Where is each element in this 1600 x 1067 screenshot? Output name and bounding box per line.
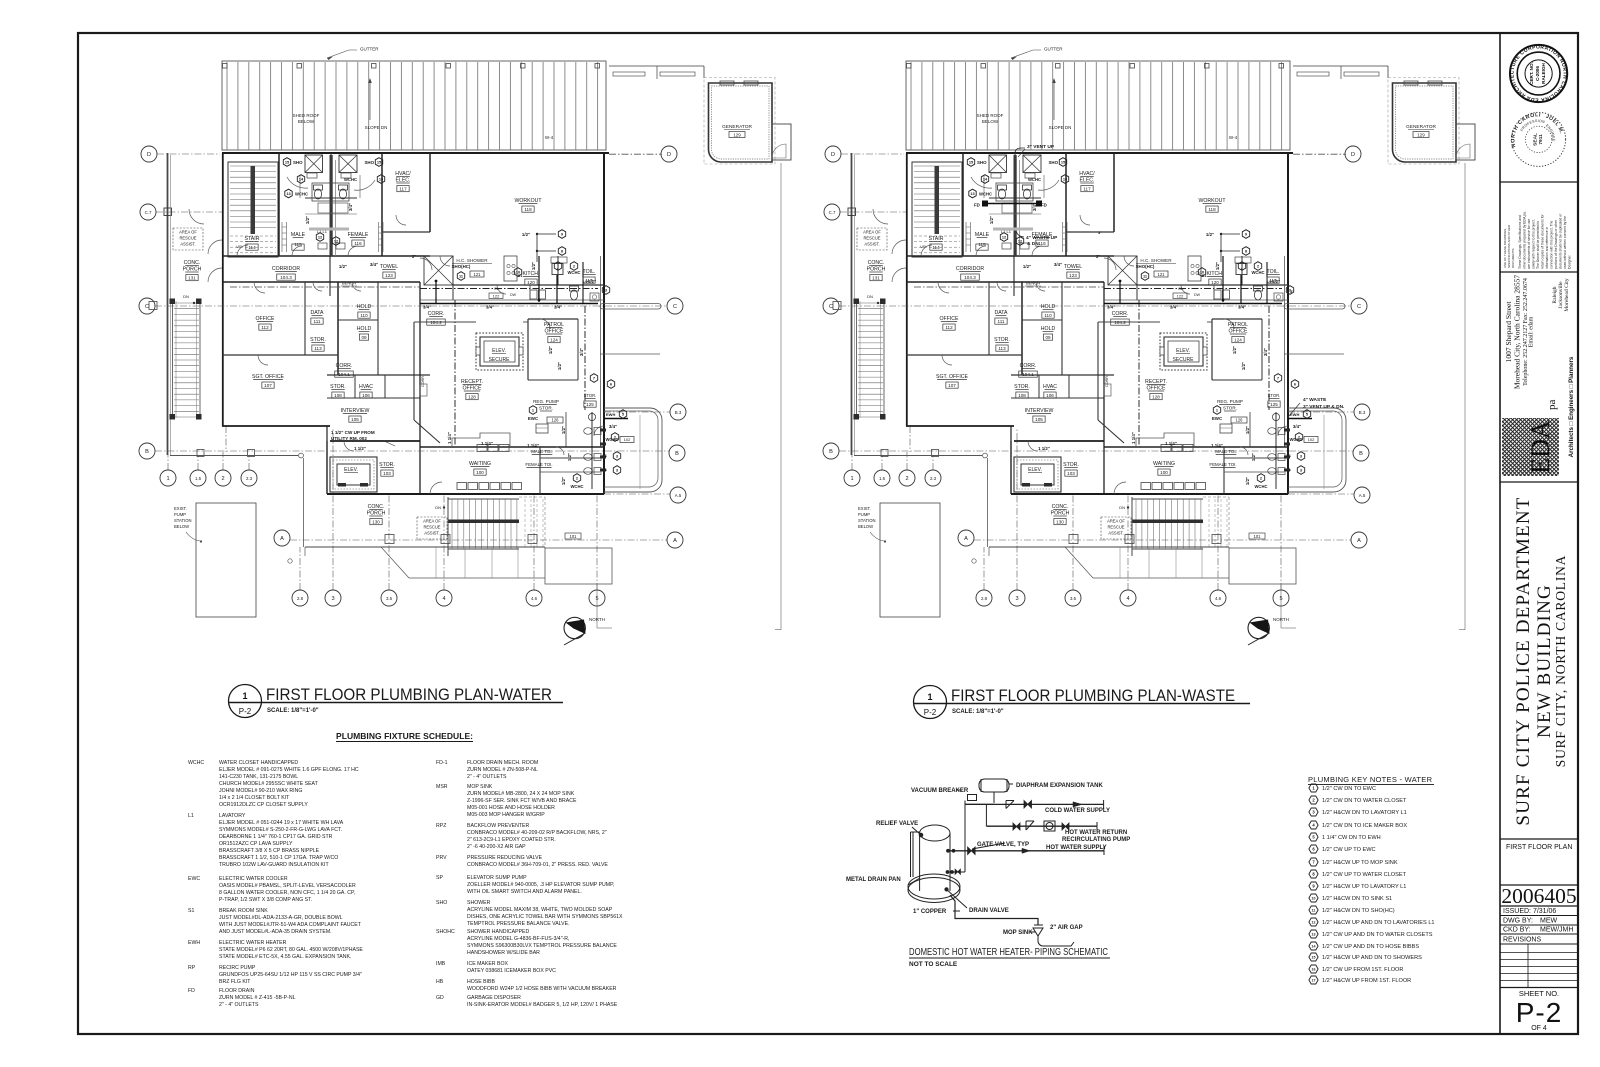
svg-text:C-2086: C-2086 — [1535, 66, 1540, 82]
svg-text:JUST MODEL#DL-ADA-2133-A-GR, D: JUST MODEL#DL-ADA-2133-A-GR, DOUBLE BOWL — [219, 915, 343, 921]
small valves below tank right — [950, 871, 965, 873]
svg-text:ACRYLINE MODEL MAXIM 38, WHITE: ACRYLINE MODEL MAXIM 38, WHITE, TWO MOLD… — [467, 907, 613, 913]
svg-text:DISHES, ONE ACRYLIC TOWEL BAR: DISHES, ONE ACRYLIC TOWEL BAR WITH SYMMO… — [467, 914, 623, 920]
svg-text:BRASSCRAFT 1 1/2, 510-1 CP 17G: BRASSCRAFT 1 1/2, 510-1 CP 17GA. TRAP W/… — [219, 855, 338, 861]
svg-text:solely with respect to this pr: solely with respect to this project. — [1532, 219, 1536, 269]
svg-text:17: 17 — [1312, 979, 1316, 983]
svg-text:1/2" H&CW UP FROM 1ST. FLOOR: 1/2" H&CW UP FROM 1ST. FLOOR — [1322, 978, 1411, 984]
svg-text:information and reference in: information and reference in — [1545, 227, 1549, 269]
svg-text:DRAIN VALVE: DRAIN VALVE — [969, 908, 1009, 914]
svg-text:FIRST FLOOR PLUMBING PLAN-WATE: FIRST FLOOR PLUMBING PLAN-WATER — [266, 686, 552, 704]
vacuum breaker + vertical pipe — [968, 795, 977, 801]
svg-text:MEW/JMH: MEW/JMH — [1540, 927, 1573, 934]
svg-text:retain copies of these documen: retain copies of these documents for — [1541, 213, 1545, 269]
labels — [846, 783, 1130, 936]
svg-text:FLOOR DRAIN MECH. ROOM: FLOOR DRAIN MECH. ROOM — [467, 760, 538, 766]
svg-text:ISSUED: 7/31/06: ISSUED: 7/31/06 — [1503, 908, 1556, 915]
svg-text:ACRYLINE MODEL G-4836-BF-FUS-3: ACRYLINE MODEL G-4836-BF-FUS-3/4"-R, — [467, 936, 569, 942]
svg-text:SCALE: 1/8"=1'-0": SCALE: 1/8"=1'-0" — [952, 709, 1004, 715]
svg-text:1/2" CW UP TO EWC: 1/2" CW UP TO EWC — [1322, 847, 1376, 853]
left title: water plan — [229, 685, 262, 718]
water heater tank — [920, 825, 950, 841]
svg-text:Email: edam: Email: edam — [1529, 316, 1535, 347]
svg-text:These Drawings, Specifications: These Drawings, Specifications and — [1518, 215, 1522, 269]
svg-text:16: 16 — [1312, 968, 1316, 972]
svg-text:other documents prepared by ED: other documents prepared by EDA,pa. — [1523, 211, 1527, 269]
svg-text:NORTH CAROLINA: NORTH CAROLINA — [0, 0, 1541, 148]
svg-text:13: 13 — [1312, 933, 1316, 937]
svg-text:1: 1 — [927, 692, 932, 702]
svg-text:& DN.: & DN. — [1027, 241, 1040, 247]
svg-text:PLUMBING FIXTURE SCHEDULE:: PLUMBING FIXTURE SCHEDULE: — [336, 731, 473, 741]
svg-text:EWC: EWC — [188, 876, 200, 882]
svg-text:NOT TO SCALE: NOT TO SCALE — [909, 961, 958, 968]
svg-text:ELEVATOR SUMP PUMP: ELEVATOR SUMP PUMP — [467, 875, 527, 881]
svg-text:MOP SINK: MOP SINK — [1003, 930, 1033, 936]
svg-text:4" WASTE UP: 4" WASTE UP — [1026, 235, 1058, 241]
svg-text:WOODFORD W24P 1/2 HOSE BIBB WI: WOODFORD W24P 1/2 HOSE BIBB WITH VACUUM … — [467, 986, 617, 992]
svg-text:GD: GD — [436, 995, 444, 1001]
left column labels — [188, 760, 204, 994]
svg-text:CERT. NO.: CERT. NO. — [1529, 62, 1534, 85]
svg-text:P-2: P-2 — [924, 708, 937, 717]
svg-text:STATE MODEL# P6 62 20RT, 80 GA: STATE MODEL# P6 62 20RT, 80 GAL. 4500 W/… — [219, 947, 363, 953]
svg-text:DOCUMENTS:: DOCUMENTS: — [1511, 248, 1515, 268]
svg-text:ELECTRIC WATER COOLER: ELECTRIC WATER COOLER — [219, 876, 288, 882]
svg-text:OR1512AZC CP LAVA SUPPLY: OR1512AZC CP LAVA SUPPLY — [219, 841, 293, 847]
right title: waste plan — [914, 686, 947, 719]
svg-text:3": 3" — [1290, 289, 1294, 294]
svg-text:3" VENT UP: 3" VENT UP — [1027, 144, 1055, 150]
svg-text:1: 1 — [1312, 786, 1315, 791]
drain pipe to mop sink — [950, 895, 1038, 925]
schematic title — [909, 946, 1110, 968]
svg-text:L1: L1 — [188, 813, 194, 819]
svg-text:1/2" H&CW UP AND DN TO LAVATOR: 1/2" H&CW UP AND DN TO LAVATORIES L1 — [1322, 920, 1435, 926]
svg-text:UTILITY RM. 002: UTILITY RM. 002 — [331, 436, 367, 441]
svg-text:1/2" CW DN TO WATER CLOSET: 1/2" CW DN TO WATER CLOSET — [1322, 798, 1407, 804]
svg-text:MOP SINK: MOP SINK — [467, 784, 493, 790]
svg-text:REVISIONS: REVISIONS — [1503, 937, 1541, 944]
svg-text:MEW: MEW — [1540, 918, 1558, 925]
svg-text:2" 613-2C9-L1 EPOXY COATED STR: 2" 613-2C9-L1 EPOXY COATED STR. — [467, 837, 556, 843]
svg-text:SP: SP — [436, 875, 443, 881]
svg-text:RP: RP — [188, 965, 196, 971]
svg-text:1: 1 — [242, 691, 247, 701]
relief valve mark — [919, 833, 923, 837]
svg-text:M05-001 HOSE AND HOSE HOLDER: M05-001 HOSE AND HOSE HOLDER — [467, 805, 555, 811]
expansion tank — [979, 779, 1009, 792]
svg-text:Morehead City: Morehead City — [1564, 278, 1570, 311]
seal 1: dark double circle — [1510, 44, 1568, 102]
svg-text:Z-1996-SF SER. SINK FCT W/VB A: Z-1996-SF SER. SINK FCT W/VB AND BRACE — [467, 798, 577, 804]
svg-text:DEARBORNE 1 1/4" 760-1 CP17 GA: DEARBORNE 1 1/4" 760-1 CP17 GA. GRID STR — [219, 834, 333, 840]
svg-text:CHURCH MODEL# 295SSC WHITE SEA: CHURCH MODEL# 295SSC WHITE SEAT — [219, 781, 319, 787]
svg-text:HOT WATER RETURN: HOT WATER RETURN — [1065, 830, 1127, 836]
svg-text:JOHNI MODEL# 90-210 WAX RING: JOHNI MODEL# 90-210 WAX RING — [219, 788, 302, 794]
lower blocks — [1501, 844, 1576, 1032]
svg-text:ZOELLER MODEL# 940-0005, .3 HP: ZOELLER MODEL# 940-0005, .3 HP ELEVATOR … — [467, 882, 614, 888]
svg-text:1/2" H&CW DN TO SINK S1: 1/2" H&CW DN TO SINK S1 — [1322, 896, 1392, 902]
svg-text:P-2: P-2 — [239, 707, 252, 716]
svg-text:3" VENT UP & DN.: 3" VENT UP & DN. — [1303, 404, 1344, 410]
svg-text:15: 15 — [1312, 956, 1316, 960]
left plan specific annotations — [331, 430, 395, 446]
svg-text:PRESSURE REDUCING VALVE: PRESSURE REDUCING VALVE — [467, 855, 543, 861]
svg-text:OF 4: OF 4 — [1531, 1025, 1547, 1032]
svg-text:SURF CITY POLICE DEPARTMENT: SURF CITY POLICE DEPARTMENT — [1513, 496, 1534, 825]
svg-text:STATE MODEL# ETC-5X, 4.55 GAL.: STATE MODEL# ETC-5X, 4.55 GAL. EXPANSION… — [219, 954, 351, 960]
svg-text:TRUBRO 102W LAV-GUARD INSULATI: TRUBRO 102W LAV-GUARD INSULATION KIT — [219, 862, 329, 868]
svg-text:3": 3" — [1098, 230, 1102, 235]
svg-text:RECIRCULATING PUMP: RECIRCULATING PUMP — [1062, 837, 1130, 843]
svg-text:WCHC: WCHC — [188, 760, 204, 766]
check valve on cold line — [1006, 801, 1014, 809]
svg-text:IN-SINK-ERATOR MODEL# BADGER 5: IN-SINK-ERATOR MODEL# BADGER 5, 1/2 HP, … — [467, 1002, 618, 1008]
svg-text:7911: 7911 — [1538, 134, 1544, 145]
svg-text:portions of the Drawings or ot: portions of the Drawings or other — [1554, 219, 1558, 269]
svg-text:1/4 x 2 1/4 CLOSET BOLT KIT: 1/4 x 2 1/4 CLOSET BOLT KIT — [219, 795, 290, 801]
right floor plan — [823, 47, 1475, 646]
svg-text:Morehead City, North Carolina: Morehead City, North Carolina 28557 — [1513, 275, 1522, 390]
svg-text:SHO: SHO — [436, 900, 447, 906]
svg-text:11: 11 — [1312, 909, 1316, 913]
left column descriptions — [219, 760, 363, 1008]
svg-text:BRASSCRAFT 3/8 X 5 CP BRASS NI: BRASSCRAFT 3/8 X 5 CP BRASS NIPPLE — [219, 848, 320, 854]
svg-text:1/2" CW DN TO EWC: 1/2" CW DN TO EWC — [1322, 786, 1376, 792]
section dividers — [1500, 181, 1578, 183]
svg-text:FD-1: FD-1 — [436, 760, 448, 766]
svg-text:IMB: IMB — [436, 961, 446, 967]
svg-text:BREAK ROOM SINK: BREAK ROOM SINK — [219, 908, 268, 914]
svg-text:CONBRACO MODEL# 40-209-02 R/P: CONBRACO MODEL# 40-209-02 R/P BACKFLOW, … — [467, 830, 607, 836]
svg-text:SURF CITY, NORTH CAROLINA: SURF CITY, NORTH CAROLINA — [1553, 555, 1568, 767]
svg-text:SHOWER HANDICAPPED: SHOWER HANDICAPPED — [467, 929, 530, 935]
right column labels — [436, 760, 455, 1001]
svg-text:ZURN MODEL # ZN-508-P-NL: ZURN MODEL # ZN-508-P-NL — [467, 767, 538, 773]
svg-text:FD: FD — [974, 203, 980, 208]
svg-text:FLOOR DRAIN: FLOOR DRAIN — [219, 988, 255, 994]
right column descriptions — [467, 760, 623, 1008]
svg-text:FIRST FLOOR PLAN: FIRST FLOOR PLAN — [1506, 844, 1572, 851]
svg-text:1/2" CW UP AND DN TO HOSE BIBB: 1/2" CW UP AND DN TO HOSE BIBBS — [1322, 944, 1419, 950]
svg-text:BACKFLOW PREVENTER: BACKFLOW PREVENTER — [467, 823, 530, 829]
svg-text:pa: pa — [1546, 400, 1558, 411]
svg-text:HOT WATER SUPPLY: HOT WATER SUPPLY — [1046, 845, 1107, 851]
svg-text:GRUNDFOS UP25-64SU 1/12 HP 115: GRUNDFOS UP25-64SU 1/12 HP 115 V SS CIRC… — [219, 972, 362, 978]
svg-text:RALEIGH: RALEIGH — [1541, 62, 1546, 83]
svg-text:are instruments of service for: are instruments of service for use — [1527, 219, 1531, 269]
svg-text:3: 3 — [1312, 810, 1315, 815]
svg-text:LAVATORY: LAVATORY — [219, 813, 246, 819]
svg-text:COLD WATER SUPPLY: COLD WATER SUPPLY — [1045, 808, 1110, 814]
cold water supply line — [965, 803, 1104, 805]
svg-text:EWH: EWH — [188, 940, 200, 946]
svg-text:WATER CLOSET HANDICAPPED: WATER CLOSET HANDICAPPED — [219, 760, 298, 766]
svg-text:ELJER MODEL # 091-0275 WHITE 1: ELJER MODEL # 091-0275 WHITE 1.6 GPF ELO… — [219, 767, 359, 773]
svg-text:HB: HB — [436, 979, 444, 985]
EDA logo — [1502, 356, 1575, 476]
svg-text:1 1/2" CW UP FROM: 1 1/2" CW UP FROM — [331, 430, 375, 435]
relief valve pipe down left — [910, 832, 912, 877]
svg-text:12: 12 — [1312, 921, 1316, 925]
svg-text:WITH OIL SMART SWITCH AND ALAR: WITH OIL SMART SWITCH AND ALARM PANEL. — [467, 889, 582, 895]
svg-text:RECIRC PUMP: RECIRC PUMP — [219, 965, 256, 971]
svg-text:CKD BY:: CKD BY: — [1503, 927, 1531, 934]
svg-text:FD: FD — [188, 988, 195, 994]
svg-text:1/2" CW UP FROM 1ST. FLOOR: 1/2" CW UP FROM 1ST. FLOOR — [1322, 967, 1403, 973]
svg-text:P-2: P-2 — [1516, 997, 1563, 1028]
svg-text:P-TRAP, 1/2 SWT X 3/8 COMP ANG: P-TRAP, 1/2 SWT X 3/8 COMP ANG ST. — [219, 897, 312, 903]
svg-text:SHOWER: SHOWER — [467, 900, 491, 906]
svg-text:HOSE BIBB: HOSE BIBB — [467, 979, 496, 985]
svg-text:8 GALLON WATER COOLER, NON CFC: 8 GALLON WATER COOLER, NON CFC, 1 1/4 20… — [219, 890, 355, 896]
svg-text:1/2" CW UP TO WATER CLOSET: 1/2" CW UP TO WATER CLOSET — [1322, 872, 1407, 878]
svg-text:DWG BY:: DWG BY: — [1503, 918, 1533, 925]
svg-text:Designer.: Designer. — [1568, 255, 1572, 269]
svg-text:SYMMONS MODEL# S-250-2-FR-G-LW: SYMMONS MODEL# S-250-2-FR-G-LWG LAVA FCT… — [219, 827, 342, 833]
outer frame of title block — [1499, 33, 1501, 1034]
drain valve dot + leader — [945, 888, 948, 891]
svg-text:CONBRACO MODEL# 36H-709-01, 2": CONBRACO MODEL# 36H-709-01, 2" PRESS. RE… — [467, 862, 608, 868]
disclaimer block — [1503, 211, 1572, 269]
svg-text:RPZ: RPZ — [436, 823, 446, 829]
svg-text:DOMESTIC HOT WATER HEATER- PIP: DOMESTIC HOT WATER HEATER- PIPING SCHEMA… — [909, 946, 1108, 958]
svg-text:TEMPTROL PRESSURE BALANCE VALV: TEMPTROL PRESSURE BALANCE VALVE. — [467, 921, 570, 927]
svg-text:1" COPPER: 1" COPPER — [913, 909, 947, 915]
svg-text:1/2" H&CW UP AND DN TO SHOWERS: 1/2" H&CW UP AND DN TO SHOWERS — [1322, 955, 1422, 961]
svg-text:connection with this project.: connection with this project. The — [1550, 221, 1554, 269]
gate valve bowtie — [1024, 801, 1032, 809]
svg-text:NEW BUILDING: NEW BUILDING — [1534, 584, 1555, 738]
svg-text:14: 14 — [1312, 945, 1316, 949]
svg-text:OASIS MODEL# PBAMSL, SPLIT-LEV: OASIS MODEL# PBAMSL, SPLIT-LEVEL VERSACO… — [219, 883, 356, 889]
svg-text:PLUMBING KEY NOTES - WATER: PLUMBING KEY NOTES - WATER — [1308, 775, 1433, 784]
svg-text:2" - 4" OUTLETS: 2" - 4" OUTLETS — [219, 1002, 259, 1008]
svg-text:2" - 4" OUTLETS: 2" - 4" OUTLETS — [467, 774, 507, 780]
svg-text:1/2" H&CW UP TO MOP SINK: 1/2" H&CW UP TO MOP SINK — [1322, 860, 1398, 866]
svg-text:ICE MAKER BOX: ICE MAKER BOX — [467, 961, 508, 967]
svg-text:The Owner shall be permitted t: The Owner shall be permitted to — [1536, 221, 1540, 269]
svg-text:ZURN MODEL# MB-2800, 24 X 24 M: ZURN MODEL# MB-2800, 24 X 24 MOP SINK — [467, 791, 575, 797]
svg-text:1/2" CW UP AND DN TO WATER CLO: 1/2" CW UP AND DN TO WATER CLOSETS — [1322, 932, 1433, 938]
svg-text:RELIEF VALVE: RELIEF VALVE — [876, 821, 918, 827]
svg-text:OCR1912DLZC CP CLOSET SUPPLY: OCR1912DLZC CP CLOSET SUPPLY — [219, 802, 308, 808]
hot water supply line — [950, 850, 1104, 852]
svg-text:1/2" H&CW DN TO LAVATORY L1: 1/2" H&CW DN TO LAVATORY L1 — [1322, 810, 1407, 816]
svg-text:GARBAGE DISPOSER: GARBAGE DISPOSER — [467, 995, 521, 1001]
svg-text:MSR: MSR — [436, 784, 448, 790]
svg-text:1 1/4" CW DN TO EWH: 1 1/4" CW DN TO EWH — [1322, 835, 1381, 841]
plan titles — [229, 685, 1251, 719]
svg-text:M05-003 MOP HANGER W/GRIP: M05-003 MOP HANGER W/GRIP — [467, 812, 545, 818]
svg-text:SEAL: SEAL — [1533, 133, 1539, 146]
svg-text:6: 6 — [1312, 847, 1315, 852]
svg-text:1/2" H&CW DN TO SHO(HC): 1/2" H&CW DN TO SHO(HC) — [1322, 908, 1395, 914]
svg-text:METAL DRAIN PAN: METAL DRAIN PAN — [846, 877, 901, 883]
svg-text:AND JUST MODEL#L-ADA-35 DRAIN: AND JUST MODEL#L-ADA-35 DRAIN SYSTEM. — [219, 929, 332, 935]
svg-text:1/2" H&CW UP TO LAVATORY L1: 1/2" H&CW UP TO LAVATORY L1 — [1322, 884, 1406, 890]
svg-text:4: 4 — [1312, 823, 1315, 828]
svg-text:BRZ FLG KIT: BRZ FLG KIT — [219, 979, 251, 985]
left floor plan — [139, 47, 791, 646]
svg-text:ENGINEER: ENGINEER — [0, 0, 1556, 142]
key notes — [1308, 775, 1435, 984]
svg-text:ELECTRIC WATER HEATER: ELECTRIC WATER HEATER — [219, 940, 287, 946]
svg-text:VACUUM BREAKER: VACUUM BREAKER — [911, 788, 969, 794]
svg-text:WITH JUST MODEL#JTR-51-W4 ADA: WITH JUST MODEL#JTR-51-W4 ADA COMPLAINT … — [219, 922, 362, 928]
hot water return line — [985, 804, 987, 826]
svg-text:Architects □ Engineers □: Architects □ Engineers □ Planners — [1568, 356, 1575, 457]
svg-text:EDA: EDA — [1526, 420, 1555, 474]
seal 2: dotted PE seal — [0, 0, 1566, 166]
svg-text:HANDSHOWER W/SLIDE BAR: HANDSHOWER W/SLIDE BAR — [467, 950, 540, 956]
project title — [1513, 496, 1568, 825]
svg-text:DIAPHRAM EXPANSION TANK: DIAPHRAM EXPANSION TANK — [1016, 783, 1103, 789]
svg-text:10: 10 — [1312, 897, 1316, 901]
svg-text:7: 7 — [1312, 860, 1315, 865]
svg-text:2: 2 — [1312, 798, 1315, 803]
svg-text:used without written consent b: used without written consent by the — [1563, 216, 1567, 269]
svg-text:1/2" CW DN TO ICE MAKER BOX: 1/2" CW DN TO ICE MAKER BOX — [1322, 823, 1407, 829]
plumbing fixture schedule — [188, 731, 623, 1008]
svg-text:ELJER MODEL # 051-0244 19 x 17: ELJER MODEL # 051-0244 19 x 17 WHITE WH … — [219, 820, 344, 826]
address block (rotated serif) — [1504, 275, 1570, 390]
svg-text:S1: S1 — [188, 908, 194, 914]
svg-text:SCALE: 1/8"=1'-0": SCALE: 1/8"=1'-0" — [267, 708, 319, 714]
svg-text:8: 8 — [1312, 872, 1315, 877]
svg-text:documents shall not be duplica: documents shall not be duplicated or — [1559, 213, 1563, 269]
metal drain pan — [908, 874, 960, 899]
svg-text:SYMMONS S96300B30LVX TEMPTROL: SYMMONS S96300B30LVX TEMPTROL PRESSURE B… — [467, 943, 617, 949]
piping schematic — [846, 779, 1130, 968]
svg-text:9: 9 — [1312, 884, 1315, 889]
svg-text:2" AIR GAP: 2" AIR GAP — [1050, 925, 1083, 931]
svg-text:PRV: PRV — [436, 855, 447, 861]
svg-text:4" WASTE: 4" WASTE — [1303, 397, 1327, 403]
svg-text:FIRST FLOOR PLUMBING PLAN-WAST: FIRST FLOOR PLUMBING PLAN-WASTE — [951, 687, 1235, 705]
svg-text:2" -6 40-200-X2 AIR GAP: 2" -6 40-200-X2 AIR GAP — [467, 844, 526, 850]
svg-text:SHOHC: SHOHC — [436, 929, 455, 935]
svg-text:5: 5 — [1312, 835, 1315, 840]
svg-text:2006405: 2006405 — [1501, 884, 1576, 908]
svg-text:ZURN MODEL # Z-415 -5B-P-NL: ZURN MODEL # Z-415 -5B-P-NL — [219, 995, 296, 1001]
svg-text:OATEY 038681 ICEMAKER BOX PVC: OATEY 038681 ICEMAKER BOX PVC — [467, 968, 556, 974]
right plan specific annotations — [974, 144, 1344, 417]
svg-text:141-C230 TANK, 131-2175 BOWL: 141-C230 TANK, 131-2175 BOWL — [219, 774, 298, 780]
